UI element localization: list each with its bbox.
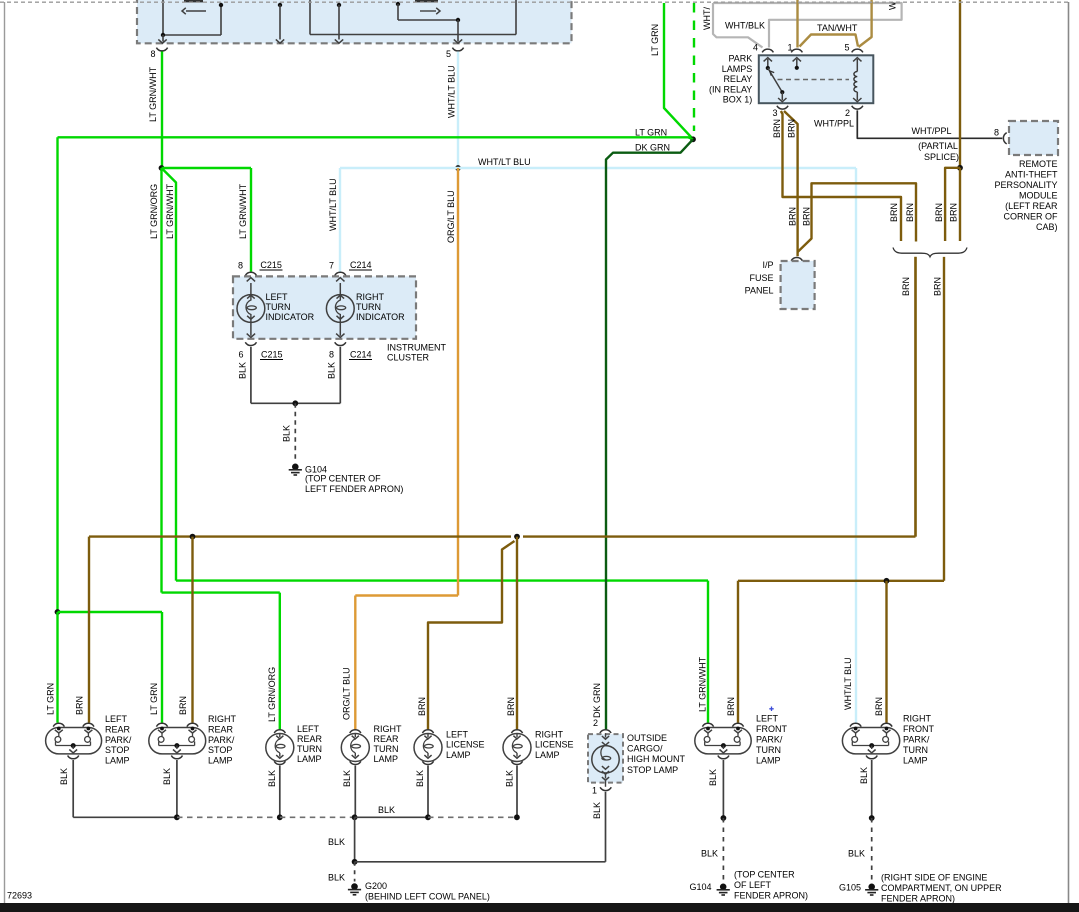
svg-text:WHT/LT BLU: WHT/LT BLU [478, 157, 531, 167]
switch junction dot 221,5 [219, 3, 223, 7]
node BLK bus dot 4 [425, 814, 431, 820]
cut-off text fragment right [415, 0, 438, 2]
wire BLK from cluster pin 8b [339, 347, 341, 404]
wire LT GRN/WHT horizontal run to left front lamp [176, 579, 708, 581]
left rear turn lamp [274, 730, 285, 733]
switch pin 5 arrow down [457, 20, 459, 42]
wire LT GRN/WHT down-left diagonal branch [162, 168, 177, 581]
svg-text:C214: C214 [350, 260, 372, 270]
svg-text:BLK: BLK [282, 425, 292, 442]
svg-text:LT GRN: LT GRN [650, 24, 660, 56]
wire BLK left license drop [427, 766, 429, 818]
wire BRN to right license lamp [516, 537, 518, 730]
switch pin 5 connector cup [452, 48, 463, 51]
relay pin 1 cup [791, 49, 802, 52]
wire TAN/WHT bridge pin1-pin5 [800, 35, 859, 47]
svg-text:LT GRN/WHT: LT GRN/WHT [148, 66, 158, 122]
wire BLK cargo lamp drop [605, 792, 607, 862]
svg-text:G200: G200 [365, 881, 387, 891]
svg-text:SPLICE): SPLICE) [924, 152, 959, 162]
switch right arrow [420, 10, 436, 12]
wire BRN to left rear park lamp [88, 537, 90, 723]
svg-text:(TOP CENTER: (TOP CENTER [734, 870, 795, 880]
switch junction dot 458,20 [456, 18, 460, 22]
left rear park/stop lamp [53, 723, 64, 726]
switch middle arrow 2 (pin no wire) [337, 3, 341, 7]
node LT GRN junction [690, 136, 696, 142]
svg-text:BRN: BRN [934, 203, 944, 222]
wire BLK dashed to G200 [354, 862, 356, 882]
switch internal U wire [309, 0, 311, 35]
svg-text:PARK/: PARK/ [105, 735, 132, 745]
svg-text:8: 8 [994, 128, 999, 138]
outside cargo / high mount stop lamp box [588, 734, 623, 783]
svg-text:OUTSIDE: OUTSIDE [627, 733, 667, 743]
svg-text:BLK: BLK [342, 770, 352, 787]
svg-text:LT GRN: LT GRN [635, 128, 667, 138]
svg-text:I/P: I/P [762, 260, 773, 270]
svg-text:BLK: BLK [378, 805, 395, 815]
svg-text:LAMP: LAMP [105, 756, 130, 766]
svg-text:4: 4 [753, 43, 758, 53]
relay K1 PARK LAMPS RELAY box [759, 55, 874, 103]
relay pin 1 internal arrow [796, 59, 798, 68]
svg-text:FENDER APRON): FENDER APRON) [881, 894, 955, 904]
wire WHT/BLK from top left [713, 3, 763, 48]
wire BLK horizontal to cargo lamp [355, 861, 606, 863]
ground G104 (upper) [292, 464, 299, 471]
svg-text:TURN: TURN [756, 745, 781, 755]
svg-text:C215: C215 [260, 260, 282, 270]
svg-text:BLK: BLK [848, 849, 865, 859]
svg-text:G105: G105 [839, 883, 861, 893]
svg-text:BRN: BRN [786, 119, 796, 138]
svg-text:PARK/: PARK/ [208, 735, 235, 745]
svg-text:TURN: TURN [903, 745, 928, 755]
svg-text:LAMP: LAMP [374, 754, 399, 764]
ground G200 [351, 883, 358, 890]
turn signal switch box (cut off at top) [137, 0, 572, 43]
svg-text:ORG/LT BLU: ORG/LT BLU [446, 190, 456, 243]
switch middle arrow 1 (pin no wire) [278, 3, 282, 7]
right front park/turn lamp [850, 723, 861, 726]
svg-text:TURN: TURN [356, 302, 381, 312]
node BLK bus dot 1 [174, 814, 180, 820]
svg-text:LEFT: LEFT [756, 714, 779, 724]
svg-text:FENDER APRON): FENDER APRON) [734, 891, 808, 901]
node splice WHT/LT BLU [455, 165, 461, 171]
svg-text:RELAY: RELAY [723, 74, 752, 84]
svg-text:LAMP: LAMP [903, 756, 928, 766]
right turn indicator lamp [339, 283, 341, 295]
svg-text:LAMP: LAMP [535, 750, 560, 760]
relay coil [856, 59, 858, 72]
svg-text:TURN: TURN [374, 744, 399, 754]
svg-text:COMPARTMENT, ON UPPER: COMPARTMENT, ON UPPER [881, 883, 1002, 893]
relay pin 2 cup [852, 106, 863, 109]
left license lamp [422, 730, 433, 733]
svg-text:1: 1 [592, 786, 597, 796]
wire BRN riser to brace (left) [914, 257, 916, 537]
relay pin 4 cup [762, 49, 773, 52]
wire LT GRN/ORG jog to left rear turn lamp [162, 591, 280, 593]
svg-text:LT GRN: LT GRN [46, 683, 56, 715]
wire LT GRN horizontal to left side [58, 137, 694, 139]
wire BRN vertical from top of page [959, 0, 961, 168]
wire BLK bus dashed segment 3 [280, 816, 355, 818]
svg-text:LT GRN/WHT: LT GRN/WHT [165, 183, 175, 239]
node BRN bus dot 2 [514, 534, 520, 540]
svg-text:BLK: BLK [505, 770, 515, 787]
relay pin 5 cup [852, 49, 863, 52]
svg-text:BLK: BLK [162, 768, 172, 785]
svg-text:2: 2 [845, 108, 850, 118]
wire BRN to right rear park lamp [191, 537, 193, 723]
svg-text:2: 2 [593, 718, 598, 728]
svg-text:DK GRN: DK GRN [635, 143, 670, 153]
outside cargo lamp cup top [600, 730, 611, 733]
svg-text:INSTRUMENT: INSTRUMENT [387, 343, 446, 353]
svg-text:REMOTE: REMOTE [1019, 159, 1058, 169]
wire BLK bus solid segment 1 [73, 816, 177, 818]
wire LT GRN/ORG continues below splice [160, 168, 162, 593]
svg-text:72693: 72693 [7, 890, 32, 900]
instrument cluster box [233, 276, 416, 338]
I/P fuse panel cup [791, 257, 802, 260]
bottom black bar [0, 903, 1079, 912]
svg-text:BRN: BRN [874, 697, 884, 716]
fuse panel box [781, 261, 815, 309]
relay internal dashed link [778, 79, 850, 81]
svg-text:ANTI-THEFT: ANTI-THEFT [1005, 169, 1058, 179]
svg-text:TURN: TURN [266, 302, 291, 312]
svg-text:BOX 1): BOX 1) [723, 95, 753, 105]
node BLK G200 junction [352, 859, 358, 865]
svg-text:3: 3 [772, 108, 777, 118]
svg-text:REAR: REAR [208, 724, 234, 734]
svg-text:BLK: BLK [267, 770, 277, 787]
wire WHT/LT BLU down to right front lamp [855, 168, 857, 723]
svg-text:LAMP: LAMP [446, 750, 471, 760]
svg-text:LICENSE: LICENSE [446, 740, 485, 750]
svg-text:PARK/: PARK/ [903, 735, 930, 745]
svg-text:6: 6 [238, 350, 243, 360]
svg-text:(TOP CENTER OF: (TOP CENTER OF [305, 474, 381, 484]
wire BRN to left front lamp [737, 581, 739, 723]
svg-text:BLK: BLK [238, 362, 248, 379]
svg-text:LEFT FENDER APRON): LEFT FENDER APRON) [305, 484, 403, 494]
wire DK GRN from junction to outside cargo lamp [606, 139, 693, 729]
wire WHT/LT BLU horizontal run [340, 167, 856, 169]
svg-text:MODULE: MODULE [1019, 190, 1058, 200]
svg-text:BLK: BLK [415, 770, 425, 787]
wire LT GRN/WHT from switch pin 8 [161, 52, 163, 169]
svg-text:RIGHT: RIGHT [903, 714, 932, 724]
svg-text:BRN: BRN [178, 696, 188, 715]
wire BRN main down to brace [959, 168, 961, 241]
svg-text:(BEHIND LEFT COWL PANEL): (BEHIND LEFT COWL PANEL) [365, 892, 490, 902]
svg-text:BLK: BLK [859, 767, 869, 784]
wire BRN to I/P fuse panel via diagonal [798, 183, 916, 252]
page frame left border [4, 2, 6, 903]
svg-text:INDICATOR: INDICATOR [266, 312, 315, 322]
ground G104 (lower) [720, 884, 727, 891]
wire BLK bus down to G200 junction [354, 817, 356, 862]
svg-text:REAR: REAR [105, 724, 131, 734]
wire BRN diagonal to left license lamp [428, 541, 515, 729]
svg-text:BRN: BRN [889, 203, 899, 222]
wire BLK from cluster pin 6 [250, 347, 252, 404]
wire LT GRN dashed from top [693, 3, 695, 131]
wire BLK dashed to G105 [871, 818, 873, 884]
svg-text:BRN: BRN [901, 277, 911, 296]
svg-text:5: 5 [844, 43, 849, 53]
wire LT GRN solid vertical from top [664, 3, 692, 138]
svg-text:WHT/: WHT/ [702, 7, 712, 30]
wire BRN from relay pin 3 (right diagonal) [784, 111, 798, 256]
node BLK left front [721, 815, 727, 821]
node BLK junction under cluster [292, 400, 298, 406]
switch pin 8 arrow down [162, 35, 164, 42]
svg-text:CARGO/: CARGO/ [627, 744, 663, 754]
svg-text:(RIGHT SIDE OF ENGINE: (RIGHT SIDE OF ENGINE [881, 873, 987, 883]
svg-text:BLK: BLK [59, 768, 69, 785]
svg-text:BLK: BLK [701, 849, 718, 859]
svg-text:LAMP: LAMP [756, 756, 781, 766]
page frame right border [1068, 2, 1070, 903]
wire ORG/LT BLU jog to right rear turn lamp [355, 594, 458, 596]
svg-text:BRN: BRN [788, 207, 798, 226]
page frame top edge (dashed) [0, 1, 1070, 3]
brace bundling 4 BRN wires [893, 248, 967, 257]
node splice on LT GRN/WHT [159, 165, 165, 171]
svg-text:TAN/WHT: TAN/WHT [817, 23, 858, 33]
wire WHT/BLK loop from top right to relay pin 4 [713, 3, 902, 48]
cluster pin 8b cup [335, 342, 346, 345]
switch right group wire [396, 2, 400, 6]
wire BRN branch left and down [945, 168, 960, 241]
svg-text:STOP: STOP [105, 745, 129, 755]
node BRN splice [957, 165, 963, 171]
relay pin 3 cup [777, 106, 788, 109]
svg-text:RIGHT: RIGHT [208, 714, 237, 724]
wire BLK right rear turn drop [354, 766, 356, 818]
svg-text:TURN: TURN [297, 744, 322, 754]
svg-text:BLK: BLK [327, 362, 337, 379]
cluster pin 7 cup [335, 272, 346, 275]
svg-text:BLK: BLK [328, 873, 345, 883]
svg-text:G104: G104 [689, 882, 711, 892]
module U1 REMOTE ANTI-THEFT PERSONALITY MODULE box [1009, 121, 1058, 155]
svg-text:FRONT: FRONT [903, 724, 934, 734]
svg-text:RIGHT: RIGHT [535, 730, 564, 740]
wire BLK right rear park drop [176, 760, 178, 817]
wire WHT/LT BLU to cluster pin 7 [339, 168, 341, 272]
svg-text:HIGH MOUNT: HIGH MOUNT [627, 754, 685, 764]
wire ORG/LT BLU from splice down [457, 168, 459, 596]
svg-text:BRN: BRN [74, 696, 84, 715]
wire BLK bus dashed segment 5 [428, 816, 517, 818]
node BLK bus dot 3 [352, 814, 358, 820]
svg-text:WHT/PPL: WHT/PPL [911, 126, 951, 136]
wire BLK left rear turn drop [279, 766, 281, 818]
wire TAN/WHT vertical to relay pin 5 [859, 0, 872, 47]
svg-text:LT GRN: LT GRN [149, 683, 159, 715]
svg-text:BRN: BRN [905, 203, 915, 222]
svg-text:STOP LAMP: STOP LAMP [627, 765, 678, 775]
svg-text:C214: C214 [350, 350, 372, 360]
wire BLK right front lamp drop [871, 760, 873, 818]
wire BLK left front lamp drop [722, 760, 724, 818]
svg-text:BLK: BLK [328, 837, 345, 847]
wire LT GRN branch to right rear park lamp [58, 611, 163, 613]
svg-text:BRN: BRN [772, 119, 782, 138]
outside cargo lamp cup bottom [600, 787, 611, 790]
svg-text:BRN: BRN [949, 203, 959, 222]
node BLK bus dot 2 [277, 814, 283, 820]
left turn indicator lamp [250, 283, 252, 295]
svg-text:WHT/PPL: WHT/PPL [814, 119, 854, 129]
svg-text:LT GRN/WHT: LT GRN/WHT [238, 183, 248, 239]
svg-text:PERSONALITY: PERSONALITY [994, 180, 1057, 190]
cluster pin 6 cup [245, 342, 256, 345]
svg-text:WHT/BLK: WHT/BLK [725, 21, 765, 31]
node BRN front split [884, 578, 890, 584]
svg-text:LEFT: LEFT [297, 724, 320, 734]
svg-text:(PARTIAL: (PARTIAL [918, 141, 958, 151]
svg-text:PARK: PARK [728, 54, 752, 64]
svg-text:CLUSTER: CLUSTER [387, 353, 430, 363]
wire LT GRN to left rear park lamp [56, 612, 58, 723]
switch internal wire left group [162, 0, 164, 35]
svg-text:BRN: BRN [417, 697, 427, 716]
svg-text:LT GRN/WHT: LT GRN/WHT [698, 656, 708, 712]
svg-text:LEFT: LEFT [266, 292, 289, 302]
svg-text:LEFT: LEFT [446, 730, 469, 740]
node LT GRN splice left [55, 609, 61, 615]
svg-text:(LEFT REAR: (LEFT REAR [1005, 201, 1058, 211]
right rear turn lamp [350, 730, 361, 733]
module pin 8 cup [1003, 133, 1006, 144]
wire BLK bus dashed segment 2 [177, 816, 280, 818]
outside cargo lamp symbol [605, 733, 607, 737]
svg-text:LAMP: LAMP [208, 756, 233, 766]
wire BRN to right front lamp [885, 581, 887, 723]
cluster pin 8 cup [245, 272, 256, 275]
svg-text:BLK: BLK [708, 769, 718, 786]
node BLK right front [869, 815, 875, 821]
svg-text:ORG/LT BLU: ORG/LT BLU [342, 667, 352, 720]
svg-text:LEFT: LEFT [105, 714, 128, 724]
svg-text:STOP: STOP [208, 745, 232, 755]
svg-text:PARK/: PARK/ [756, 735, 783, 745]
svg-text:BLK: BLK [592, 802, 602, 819]
wire BLK left rear park to bus [72, 760, 74, 817]
wire BRN below brace (right) [943, 257, 945, 581]
svg-text:LT GRN/ORG: LT GRN/ORG [149, 184, 159, 239]
relay pin 4 internal arrow [767, 59, 769, 68]
svg-text:(IN RELAY: (IN RELAY [709, 84, 752, 94]
wire BRN below brace (left) [914, 257, 916, 537]
svg-text:LAMP: LAMP [297, 754, 322, 764]
svg-text:REAR: REAR [297, 734, 323, 744]
svg-text:FRONT: FRONT [756, 724, 787, 734]
svg-text:WHT/LT BLU: WHT/LT BLU [843, 657, 853, 710]
wire TAN/WHT vertical to relay pin 1 [796, 0, 798, 48]
svg-text:8: 8 [238, 260, 243, 270]
relay pin 3 internal arrow [781, 92, 783, 100]
svg-text:BRN: BRN [932, 277, 942, 296]
svg-text:BRN: BRN [801, 207, 811, 226]
svg-text:FUSE: FUSE [749, 273, 773, 283]
svg-text:INDICATOR: INDICATOR [356, 312, 405, 322]
right rear park/stop lamp [156, 723, 167, 726]
svg-text:CORNER OF: CORNER OF [1004, 212, 1059, 222]
svg-text:OF LEFT: OF LEFT [734, 880, 772, 890]
svg-text:WHT/LT BLU: WHT/LT BLU [447, 65, 457, 118]
wire WHT/PPL from relay pin 2 [857, 110, 1002, 138]
wire BRN from relay pin 3 (left) [781, 111, 901, 241]
switch pin 8 connector cup [156, 48, 167, 51]
svg-text:LICENSE: LICENSE [535, 740, 574, 750]
cut-off text fragment left [184, 0, 203, 2]
wire WHT/LT BLU from switch pin 5 [457, 52, 459, 169]
svg-text:BRN: BRN [506, 697, 516, 716]
node BRN bus dot 1 [190, 534, 196, 540]
wire BLK dashed to ground G104 [294, 403, 296, 461]
svg-text:1: 1 [787, 43, 792, 53]
switch left arrow [186, 10, 206, 12]
svg-text:CAB): CAB) [1036, 222, 1058, 232]
cursor artifact blue cross [769, 707, 773, 712]
node BLK bus dot 5 [514, 814, 520, 820]
svg-text:DK GRN: DK GRN [592, 683, 602, 718]
svg-text:BRN: BRN [726, 697, 736, 716]
wire BRN run y=580.8 to front lamps [884, 580, 944, 582]
svg-text:8: 8 [329, 350, 334, 360]
svg-text:8: 8 [150, 49, 155, 59]
wire BLK bus solid segment 4 [355, 816, 428, 818]
svg-text:5: 5 [446, 49, 451, 59]
svg-text:RIGHT: RIGHT [356, 292, 385, 302]
svg-text:REAR: REAR [374, 734, 400, 744]
svg-text:RIGHT: RIGHT [374, 724, 403, 734]
wire BLK dashed to G104 [722, 818, 724, 884]
left front park/turn lamp [702, 723, 713, 726]
svg-text:C215: C215 [261, 350, 283, 360]
svg-text:WHT/LT BLU: WHT/LT BLU [328, 178, 338, 231]
svg-text:LAMPS: LAMPS [722, 64, 753, 74]
svg-text:PANEL: PANEL [745, 286, 774, 296]
relay switch blade [768, 68, 783, 92]
right license lamp [511, 730, 522, 733]
svg-text:LT GRN/ORG: LT GRN/ORG [267, 667, 277, 722]
svg-text:7: 7 [329, 260, 334, 270]
ground G105 [868, 884, 875, 891]
wire BLK right license drop [516, 766, 518, 818]
wire LT GRN/WHT branch to cluster pin 8 [162, 167, 252, 169]
switch junction dot 163,35 [161, 33, 165, 37]
wire BRN bus horizontal [89, 535, 511, 537]
